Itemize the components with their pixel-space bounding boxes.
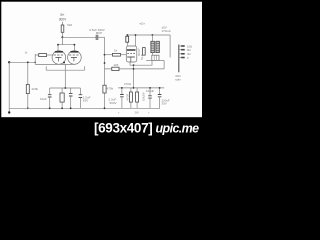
transformer T1 primary drop — [151, 35, 153, 41]
node top rail joints — [126, 34, 128, 36]
terminal tap 4 — [179, 53, 181, 55]
wire cathode network top rail — [50, 87, 81, 89]
resistor R5 470k grid leak — [103, 85, 106, 93]
wire B+ rail right drop — [169, 35, 171, 58]
terminal tap 16 — [179, 45, 181, 47]
node B+ label — [59, 13, 67, 21]
node bus joints — [49, 107, 51, 109]
label 220uF 35V — [162, 98, 170, 105]
wire R4 to grid — [121, 54, 127, 56]
transformer T1 primary winding — [151, 41, 154, 52]
wire V2 cathode elbow — [130, 60, 152, 65]
label 2.2uF 500V — [109, 98, 117, 105]
wire V1a plate stub — [57, 45, 59, 51]
svg-text:1k: 1k — [114, 49, 118, 53]
capacitor C4 lead — [79, 88, 81, 94]
wire grid node drop — [104, 37, 106, 108]
node R1 ground — [27, 107, 29, 109]
svg-text:3W: 3W — [135, 111, 140, 115]
label 1.5uF 63V — [83, 95, 91, 102]
svg-text:10uF: 10uF — [40, 97, 47, 101]
node plate junction — [61, 36, 63, 38]
wire grid split vertical — [34, 54, 36, 64]
wire cathode U bottom — [46, 69, 84, 71]
wire grid leak drop — [27, 62, 29, 84]
terminal tap 8 — [179, 49, 181, 51]
wire primary bottom — [151, 53, 153, 56]
wire cathode U left riser — [45, 66, 47, 70]
svg-text:MKP: MKP — [96, 31, 103, 35]
capacitor C4 bottom — [79, 98, 81, 109]
svg-text:63V: 63V — [83, 99, 88, 103]
triode V1a internals — [55, 51, 63, 53]
svg-text:170mA: 170mA — [162, 29, 171, 33]
wire choke to node — [61, 32, 63, 37]
svg-text:10k2W: 10k2W — [142, 92, 146, 101]
triode V1a envelope — [52, 51, 66, 65]
resistor R2 grid stopper 1 — [39, 54, 47, 57]
wire plate rail — [58, 44, 74, 46]
svg-text:300V: 300V — [59, 17, 67, 21]
label +5V 170mA — [162, 26, 171, 33]
capacitor C6 — [149, 88, 151, 95]
transformer T1 secondary winding — [156, 41, 159, 52]
wire R2 to grid V1a — [47, 54, 53, 56]
svg-text:470R: 470R — [125, 94, 129, 101]
capacitor C4 plates — [79, 95, 83, 98]
pentode V2 envelope — [126, 46, 137, 62]
resistor R1 220k — [26, 85, 29, 94]
label marks below bus — [118, 111, 150, 115]
wire lower box left stub — [146, 59, 152, 61]
choke L1 B+ feed — [61, 25, 64, 32]
resistor R8 feedback — [112, 67, 119, 70]
svg-text:35V: 35V — [162, 102, 167, 106]
wire secondary right drop — [163, 60, 165, 69]
wire plate top lead — [135, 35, 137, 46]
wire to grid stopper R2 — [35, 54, 39, 56]
svg-text:upic.me: upic.me — [156, 122, 200, 136]
node cathode rail joint — [64, 87, 66, 89]
wire lower box to right drop — [159, 59, 164, 61]
wire to grid stopper R4 — [105, 54, 113, 56]
capacitor C3 lead — [70, 88, 72, 93]
pentode V2 internals — [127, 49, 136, 51]
ground bus — [9, 107, 160, 109]
wire coupling right half — [98, 36, 105, 38]
capacitor C2 lead bottom — [49, 97, 51, 108]
capacitor C7 220uF — [159, 88, 161, 94]
wire feedback run — [105, 68, 165, 70]
capacitor C3 plates — [69, 94, 73, 96]
svg-text:500V: 500V — [110, 101, 117, 105]
node input bus bottom dot — [8, 111, 10, 113]
svg-text:470Ω: 470Ω — [124, 82, 132, 86]
svg-text:5k6: 5k6 — [67, 23, 72, 27]
svg-text:470k: 470k — [107, 87, 114, 91]
wire PSU rail — [118, 87, 164, 89]
node rail joints — [133, 87, 135, 89]
wire speaker tap line — [178, 45, 180, 73]
svg-text:B+: B+ — [61, 13, 65, 17]
wire R3 leads — [61, 88, 63, 108]
node grid split joint — [34, 62, 36, 64]
capacitor C2 plates — [48, 95, 52, 97]
node input junction — [8, 61, 10, 63]
label 0.5uF 630V MKP — [89, 28, 105, 35]
svg-text:5k:8: 5k:8 — [140, 54, 144, 60]
resistor R3 cathode — [60, 93, 64, 102]
capacitor C3 bottom — [70, 96, 72, 108]
svg-text:eΩ+: eΩ+ — [140, 22, 146, 26]
node lower tap — [104, 62, 106, 64]
terminal tap 0 — [179, 57, 181, 59]
black frame background — [0, 0, 204, 139]
wire B+ node to plate rail — [61, 37, 63, 44]
resistor R4 1k grid stopper — [113, 53, 121, 56]
watermark bar — [0, 117, 204, 139]
wire B+ top rail — [127, 34, 170, 36]
wire coupling left half — [62, 36, 96, 38]
wire cathode rail — [35, 63, 74, 65]
svg-text:1k5: 1k5 — [114, 63, 119, 67]
svg-text:220k: 220k — [32, 87, 39, 91]
wire input horizontal — [9, 61, 35, 63]
capacitor C2 lead top — [49, 88, 51, 94]
white schematic page — [1, 2, 202, 118]
wire V2 cathode to PSU rail — [133, 65, 135, 88]
resistor R6 screen box — [126, 42, 128, 46]
wire input bus vertical — [8, 62, 10, 112]
resistor R10 — [136, 88, 138, 92]
wire R1 to ground — [27, 94, 29, 109]
resistor R9 — [130, 88, 132, 92]
node plate rail right — [74, 44, 76, 46]
wire cathode U right riser — [84, 66, 86, 70]
triode V1b internals — [70, 51, 78, 53]
wire B+ to choke — [61, 22, 63, 25]
svg-text:spkr: spkr — [175, 77, 180, 81]
svg-text:[693x407]: [693x407] — [94, 121, 152, 136]
node grid stopper tap — [104, 54, 106, 56]
node plate rail left — [57, 44, 59, 46]
node grid2 joint — [63, 62, 65, 64]
triode V1b envelope — [68, 51, 82, 65]
capacitor C5 — [121, 88, 123, 94]
capacitor C1 0.5uF 630V — [96, 35, 98, 40]
transformer T1 lower box — [152, 55, 159, 60]
wire V1b plate stub — [73, 45, 75, 51]
svg-text:100uF: 100uF — [146, 89, 154, 93]
small box right of tube — [143, 48, 146, 56]
wire cathode drop — [64, 64, 66, 88]
node feedback crossing — [133, 68, 135, 70]
node R1 top — [27, 61, 29, 63]
node cathode elbow joint — [133, 64, 135, 66]
